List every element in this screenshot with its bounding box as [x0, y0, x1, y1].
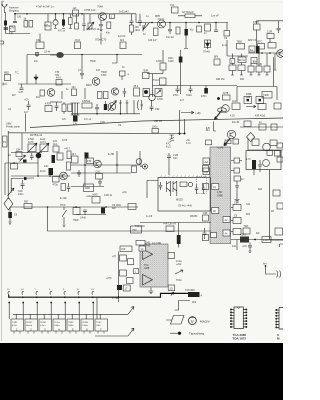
capacitor C10	[168, 23, 172, 35]
svg-text:TH/C: TH/C	[60, 204, 66, 207]
connector J1	[3, 83, 7, 86]
svg-text:47nF 4x7nF 1n: 47nF 4x7nF 1n	[36, 5, 54, 9]
resistor R54	[67, 162, 71, 170]
resistor R70	[277, 143, 283, 148]
svg-text:MA9: MA9	[93, 194, 99, 197]
svg-text:TC: TC	[15, 71, 19, 75]
trimmer C6	[89, 14, 91, 23]
resistor R7	[130, 25, 134, 32]
capacitor C39 polarized	[101, 208, 105, 214]
resistor R52	[16, 152, 22, 157]
svg-text:+4n2: +4n2	[176, 263, 182, 266]
resistor R58	[132, 166, 137, 173]
transistor Q2	[158, 20, 166, 28]
resistor R53	[53, 177, 60, 183]
wire riser x118	[118, 252, 120, 303]
capacitor C26 polarized	[105, 101, 107, 104]
svg-text:TH91: TH91	[12, 322, 18, 324]
scan border artifact	[1, 2, 3, 341]
resistor R20	[237, 44, 245, 50]
svg-text:45.2: 45.2	[134, 85, 139, 88]
resistor R73	[277, 157, 283, 162]
resistor R77	[275, 228, 283, 235]
capacitor C11 polarized	[185, 23, 187, 30]
resistor R45	[82, 103, 92, 108]
resistor R38	[264, 66, 270, 72]
resistor R28	[155, 89, 162, 97]
svg-text:Jxx C9R: Jxx C9R	[152, 242, 161, 245]
svg-text:C7p 4n7p 1k: C7p 4n7p 1k	[86, 29, 100, 31]
switch unit 7	[95, 319, 108, 331]
wire stub x85	[84, 88, 86, 99]
resistor R89	[104, 92, 109, 99]
resistor R66	[259, 124, 266, 130]
resistor R43	[62, 104, 66, 112]
resistor R68	[252, 139, 259, 146]
resistor R95	[36, 42, 44, 49]
resistor R44	[68, 104, 72, 112]
wire right top rail	[257, 21, 284, 24]
wire C to A riser	[26, 55, 28, 85]
transistor Q9	[222, 105, 230, 113]
svg-text:470 1n: 470 1n	[58, 31, 66, 33]
svg-text:4x2 C9: 4x2 C9	[118, 36, 126, 38]
svg-text:17u +4: 17u +4	[84, 119, 92, 121]
wire bottom bus	[9, 293, 188, 297]
svg-text:+C9: +C9	[24, 99, 29, 102]
svg-text:TF941: TF941	[40, 322, 47, 324]
resistor R56	[72, 156, 79, 163]
legend supply dot	[170, 332, 178, 334]
pin box P5 inside IC	[212, 208, 219, 214]
resistor R36	[248, 66, 254, 72]
ground G2	[235, 200, 240, 202]
resistor R86	[67, 151, 71, 159]
transistor Q18	[263, 143, 271, 151]
resistor R57	[87, 158, 94, 164]
resistor R14	[197, 26, 202, 32]
resistor R9	[120, 42, 126, 49]
wire bus G right row2	[248, 52, 283, 54]
resistor R16	[205, 40, 211, 48]
svg-text:(4u): (4u)	[53, 143, 57, 146]
wire stub vertical	[21, 133, 23, 150]
module box M3	[158, 178, 211, 212]
IC package U4 partial	[276, 308, 283, 330]
resistor R55	[61, 184, 66, 191]
transistor Q11	[60, 172, 68, 180]
svg-text:3,3R: 3,3R	[267, 31, 272, 34]
capacitor C1	[4, 28, 8, 29]
ground rail ticks	[231, 54, 234, 76]
svg-text:+C42: +C42	[86, 196, 92, 198]
svg-text:C41: C41	[17, 17, 22, 19]
wire top link	[50, 101, 62, 103]
svg-text:C9 41: C9 41	[158, 19, 165, 21]
svg-text:4n 1k: 4n 1k	[222, 45, 228, 47]
svg-text:+40.7: +40.7	[64, 148, 71, 151]
svg-text:1000: 1000	[85, 187, 91, 190]
wire rail y186	[71, 186, 104, 188]
wire bus J y207	[10, 206, 138, 208]
capacitor C33	[67, 183, 71, 192]
node junction dots bus B	[151, 22, 153, 24]
node blob	[217, 97, 220, 100]
svg-text:MC7B 4x12: MC7B 4x12	[30, 135, 43, 137]
svg-text:TDA 1872: TDA 1872	[233, 337, 247, 341]
svg-text:760R: 760R	[73, 220, 79, 222]
op-amp A2 triangle	[143, 275, 153, 286]
arrow feed	[181, 111, 194, 114]
node dots bus C	[81, 54, 83, 56]
pin box FR	[203, 168, 210, 175]
capacitor C52	[82, 14, 86, 31]
wire rail y165	[71, 164, 142, 166]
resistor R17	[226, 23, 228, 31]
capacitor C47	[248, 243, 252, 253]
resistor R93	[53, 146, 59, 152]
arrow connector A	[128, 307, 134, 315]
wire rail y176	[11, 175, 70, 177]
svg-text:Tápszültség: Tápszültség	[189, 332, 205, 336]
resistor R91	[73, 10, 79, 16]
wire rail y314	[13, 313, 128, 315]
resistor R18	[254, 24, 261, 30]
resistor R65	[244, 121, 251, 127]
diode D2	[206, 40, 210, 49]
svg-text:+C9: +C9	[242, 245, 247, 248]
resistor R41	[223, 95, 231, 100]
dashed box DX	[197, 177, 207, 194]
corner mark	[280, 244, 284, 247]
label box 75C	[131, 226, 142, 233]
pin box 1b	[230, 59, 235, 64]
capacitor C32 polarized	[49, 168, 54, 175]
svg-text:740R: 740R	[263, 94, 269, 97]
svg-text:41R: 41R	[203, 212, 208, 215]
pin stub box	[234, 168, 240, 173]
svg-text:41R0: 41R0	[263, 239, 269, 242]
transistor Q8	[108, 103, 116, 111]
resistor R83	[166, 226, 174, 232]
wire rail top section2	[9, 132, 185, 135]
svg-text:41.2: 41.2	[166, 146, 171, 149]
IC package U3	[230, 307, 247, 329]
node junction dots bus A	[14, 13, 16, 15]
svg-text:C120: C120	[186, 94, 192, 97]
wire verticals mid	[85, 151, 140, 187]
resistor R22	[268, 43, 276, 49]
svg-text:Pervat szinkr: Pervat szinkr	[6, 126, 20, 129]
pin box P6 inside IC	[223, 217, 230, 223]
resistor R62	[92, 197, 100, 204]
svg-text:100n: 100n	[152, 126, 158, 129]
wire antenna tap	[265, 265, 267, 267]
arrow on bus	[171, 292, 174, 296]
resistor R80 top	[136, 241, 145, 246]
resistor R1	[10, 26, 16, 32]
wire corner x227	[227, 40, 248, 56]
ground G3	[149, 288, 154, 294]
resistor R94	[57, 153, 63, 160]
filter FL1	[56, 52, 64, 58]
svg-text:470R: 470R	[157, 98, 163, 101]
svg-text:TC1b: TC1b	[176, 279, 183, 282]
pin box P15 outside	[203, 184, 209, 190]
pin box P4 inside IC	[212, 184, 219, 190]
capacitor C8	[130, 14, 134, 22]
resistor R21	[258, 44, 265, 50]
transistor Q12	[94, 160, 102, 168]
capacitor C16	[120, 71, 126, 76]
trimmer R51	[40, 144, 48, 152]
wire step	[175, 301, 191, 311]
svg-text:470R: 470R	[45, 103, 51, 106]
pin box P14	[127, 278, 134, 284]
capacitor C28	[150, 100, 154, 111]
svg-text:4F9: 4F9	[192, 301, 197, 304]
svg-text:+(7)9: +(7)9	[106, 278, 112, 280]
arrow connector B	[128, 328, 134, 336]
svg-text:MP5: MP5	[155, 15, 161, 18]
svg-text:TC10: TC10	[153, 79, 160, 82]
capacitor C5	[76, 14, 78, 23]
svg-text:41C9: 41C9	[40, 171, 46, 173]
antenna ANT1	[2, 4, 8, 13]
svg-text:700n C70: 700n C70	[95, 38, 107, 42]
svg-text:100n: 100n	[18, 193, 24, 196]
svg-text:(1): (1)	[140, 105, 143, 107]
resistor R63 on rail	[152, 129, 159, 134]
resistor R4	[69, 18, 73, 25]
resistor R6	[107, 22, 111, 29]
svg-text:MTC: MTC	[257, 41, 262, 44]
svg-text:C9 4n1 +4n9: C9 4n1 +4n9	[178, 205, 192, 208]
wire drop x62	[61, 91, 63, 99]
pin box AA	[203, 158, 210, 165]
svg-text:C91: C91	[96, 171, 101, 174]
svg-text:41R: 41R	[258, 189, 263, 191]
switch unit 1	[11, 319, 24, 331]
wire rail y336	[95, 335, 128, 337]
svg-text:+(1/4): +(1/4)	[217, 147, 224, 150]
svg-text:41R: 41R	[240, 79, 245, 81]
capacitor C14	[36, 52, 38, 57]
arrow out	[175, 270, 183, 274]
svg-text:41R 45x2: 41R 45x2	[255, 115, 266, 118]
svg-text:MB2: MB2	[4, 72, 10, 75]
switch unit 4	[53, 319, 66, 331]
capacitor C24	[55, 102, 59, 111]
svg-text:17p4: 17p4	[75, 39, 81, 42]
connector J4	[277, 271, 281, 278]
pin box P10 outside	[203, 235, 209, 241]
svg-text:4.7n: 4.7n	[246, 158, 251, 161]
module box M5 right	[270, 170, 284, 240]
svg-text:C1n 40: C1n 40	[166, 36, 174, 39]
resistor R33	[214, 59, 220, 65]
mid column: resistor R25	[160, 63, 166, 70]
black film edge band	[0, 343, 283, 400]
transistor Q13	[170, 135, 175, 142]
resistor R88	[98, 92, 103, 99]
ground G1	[54, 28, 72, 30]
svg-text:C756 1nF: C756 1nF	[84, 8, 96, 12]
svg-text:TF4cv: TF4cv	[54, 322, 61, 324]
capacitor C36	[98, 179, 102, 186]
pin box P3 outside	[203, 166, 209, 172]
svg-text:C4n8: C4n8	[80, 217, 86, 220]
capacitor C42	[195, 184, 199, 194]
svg-text:R/W 3.3: R/W 3.3	[248, 40, 257, 42]
svg-text:470n: 470n	[173, 94, 179, 97]
diode D3	[143, 89, 150, 97]
switch unit 5	[67, 319, 80, 331]
wire separator net	[30, 118, 283, 128]
resistor R61	[24, 204, 32, 209]
svg-text:C92: C92	[155, 108, 160, 111]
svg-text:4R16: 4R16	[86, 84, 92, 87]
svg-text:FR: FR	[205, 170, 209, 174]
capacitor C38	[83, 210, 87, 215]
transistor Q16	[188, 182, 192, 186]
capacitor C54	[203, 228, 207, 239]
resistor R37	[256, 66, 262, 72]
wire risers mid	[180, 110, 185, 135]
connector J3	[142, 164, 147, 169]
wire stub x25	[25, 114, 27, 132]
pin box 10	[168, 285, 175, 291]
capacitor C34 polarized	[85, 153, 89, 159]
transistor Q3	[143, 23, 150, 32]
resistor R40	[262, 92, 272, 99]
wire rail y173	[71, 172, 131, 174]
capacitor C44 polarized	[252, 160, 256, 169]
wire right link	[257, 30, 271, 47]
module box M4	[246, 151, 281, 170]
svg-text:1xx nF: 1xx nF	[211, 14, 219, 18]
wire bus H	[237, 57, 277, 100]
resistor R90	[134, 88, 140, 96]
svg-text:4u79: 4u79	[28, 141, 34, 144]
capacitor C2	[13, 14, 17, 23]
svg-text:4R: 4R	[271, 211, 274, 213]
resistor R76	[277, 203, 283, 209]
wire bus F	[153, 85, 238, 87]
resistor R97	[47, 14, 49, 22]
svg-text:JC1B: JC1B	[232, 100, 238, 103]
resistor R3	[29, 21, 33, 28]
capacitor C9	[138, 14, 142, 26]
svg-text:V: V	[191, 319, 194, 324]
svg-text:GMB: GMB	[217, 195, 223, 198]
pin stub box PS3	[233, 229, 241, 235]
svg-text:41R2: 41R2	[240, 234, 246, 237]
wire feed M3	[147, 181, 158, 199]
wire main bus A	[15, 13, 136, 15]
wire bus E	[147, 73, 163, 75]
diode D1	[34, 74, 38, 84]
transistor Q14	[167, 181, 171, 196]
wire vertical drop Q1	[100, 33, 102, 45]
svg-text:753R: 753R	[143, 70, 149, 73]
resistor R81	[120, 246, 132, 252]
capacitor C53 polarized	[52, 155, 56, 163]
svg-text:C2n: C2n	[173, 157, 178, 160]
resistor R27	[160, 78, 167, 85]
capacitor C49 polarized	[178, 223, 180, 236]
pin box JD	[168, 253, 175, 259]
svg-text:5x12x42: 5x12x42	[119, 10, 129, 14]
svg-text:C40 4u7: C40 4u7	[148, 40, 157, 42]
svg-text:4,25: 4,25	[230, 115, 235, 118]
resistor R13	[176, 27, 180, 34]
svg-text:JC7B: JC7B	[223, 92, 229, 95]
svg-text:BF9: BF9	[214, 57, 219, 59]
IC U1 shaded body	[210, 147, 231, 244]
resistor R49	[274, 103, 281, 109]
transistor Q21 dark	[36, 153, 42, 159]
capacitor C27 polarized	[73, 116, 78, 122]
resistor R46	[232, 103, 240, 110]
wire rail y163	[5, 162, 38, 164]
legend meter symbol box	[166, 316, 184, 325]
resistor R75	[273, 190, 280, 196]
svg-text:470n: 470n	[201, 95, 207, 98]
pin box P1	[206, 140, 212, 145]
svg-text:47R: 47R	[87, 160, 92, 163]
resistor R71	[267, 151, 273, 156]
op-amp A1 triangle	[143, 249, 153, 260]
pin box P12	[128, 259, 134, 265]
pin box 14	[139, 246, 146, 251]
svg-text:TF90k: TF90k	[82, 322, 89, 324]
svg-text:44.9: 44.9	[56, 77, 61, 80]
capacitor C21 polarized	[205, 86, 207, 89]
trimmer R50	[28, 144, 36, 152]
resistor R48	[258, 104, 266, 110]
wire main bus B	[136, 22, 228, 24]
switch unit 2	[25, 319, 38, 331]
svg-text:1k04: 1k04	[135, 29, 141, 32]
svg-text:41C: 41C	[36, 97, 41, 99]
transistor Q15	[173, 181, 177, 196]
svg-text:TC9 4R9: TC9 4R9	[185, 289, 195, 292]
svg-text:+4R C9u +9: +4R C9u +9	[163, 223, 177, 226]
wire bus I row3	[71, 113, 140, 115]
resistor R10	[172, 7, 179, 13]
svg-text:7048: 7048	[97, 5, 103, 9]
wire lead L	[214, 122, 217, 132]
svg-text:4F2: 4F2	[120, 39, 125, 42]
switch unit 6	[81, 319, 94, 331]
capacitor C22 polarized	[256, 46, 260, 54]
svg-text:4x 40n: 4x 40n	[60, 198, 68, 200]
capacitor C4 polarized	[63, 14, 65, 27]
component cluster K1	[11, 164, 18, 170]
pin box P2	[225, 140, 231, 144]
capacitor C3	[54, 14, 57, 20]
svg-text:40.7: 40.7	[72, 153, 77, 156]
svg-text:7806: 7806	[237, 41, 243, 44]
wire riser x117	[112, 55, 117, 64]
svg-text:40R C9: 40R C9	[154, 121, 163, 123]
wire drops rail to units	[16, 314, 100, 319]
svg-text:Ant: Ant	[263, 263, 267, 266]
drop top dots	[8, 302, 10, 304]
resistor R67	[271, 124, 277, 130]
svg-text:4u7: 4u7	[24, 111, 29, 114]
